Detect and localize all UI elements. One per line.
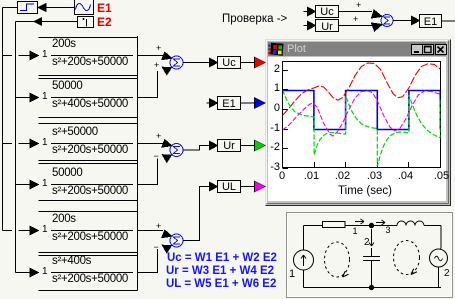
- block W6 borders: [39, 256, 138, 291]
- circuit numeral labels: [353, 226, 358, 237]
- check E1 box: [420, 15, 442, 28]
- summing junction sum1: [170, 56, 183, 69]
- plot window frame: [265, 39, 451, 206]
- arrowhead UL input: [210, 182, 218, 190]
- minimize button: [411, 44, 423, 55]
- wire UL to plot: [241, 186, 255, 188]
- arrowhead W5 input: [30, 226, 39, 234]
- circuit: source 2 circle: [430, 249, 448, 267]
- summing junction sum3: [170, 234, 183, 247]
- sine source block E1: [75, 0, 94, 15]
- check row: Uc input stub: [304, 11, 308, 13]
- circuit: right vertical wire upper: [440, 226, 442, 249]
- plot box: [283, 62, 441, 168]
- gain and fraction texts of W1..W6: [42, 50, 48, 60]
- E1 input stub: [207, 102, 211, 104]
- check Ur box: [316, 20, 339, 32]
- wire sum2 out to Ur (jog): [183, 146, 210, 151]
- branch wire to W1: [3, 55, 31, 57]
- check label: [222, 13, 287, 25]
- wire sum4 out: [393, 20, 412, 22]
- wire check E1 out to edge: [442, 20, 455, 22]
- circuit: left vertical wire: [294, 219, 448, 290]
- arrowhead Ur input: [210, 141, 218, 149]
- circuit: top wire node to coil: [374, 225, 397, 227]
- branch wire to W2: [16, 97, 31, 99]
- title text: [287, 44, 306, 55]
- plot window client area: [268, 57, 446, 201]
- wire step block to trunk A: [3, 7, 18, 9]
- circuit: top wire coil to right: [424, 225, 441, 227]
- circuit: current arrow 3: [376, 220, 385, 225]
- wire W4 out to sum2: [137, 159, 157, 185]
- block W4 borders: [39, 164, 138, 201]
- Ur variable box: [218, 140, 241, 152]
- arrowhead sum1 top input: [162, 52, 172, 59]
- arrowhead sum2 top input: [162, 140, 172, 147]
- curve E1 blue square wave: [283, 91, 441, 130]
- circuit: node dot top: [369, 223, 373, 227]
- wire W2 out to sum1: [137, 71, 157, 98]
- arrowhead E1 input: [210, 99, 218, 107]
- green plot input arrow: [255, 140, 266, 151]
- circuit: node dot bottom: [369, 285, 373, 289]
- branch wire to W4: [16, 184, 31, 186]
- red plot input arrow: [255, 57, 266, 68]
- check Uc box: [316, 6, 339, 18]
- circuit: source 1 arrow up: [301, 255, 306, 266]
- wire E1 to plot: [241, 102, 255, 104]
- wire sum1 out to Uc: [183, 62, 210, 64]
- curve Ur magenta dashed: [283, 91, 441, 136]
- arrowhead check Ur input: [308, 21, 316, 29]
- circuit: capacitor top lead: [371, 248, 373, 256]
- circuit: left mesh arrowhead: [343, 271, 349, 277]
- time axis title: [330, 186, 400, 197]
- circuit: resistor body: [323, 222, 346, 228]
- circuit: top wire resistor to node: [345, 225, 372, 227]
- E1 E2 labels: [97, 2, 112, 14]
- plot axis labels: [274, 64, 280, 75]
- magenta plot input arrow: [255, 181, 266, 192]
- check Ur input stub: [304, 25, 308, 27]
- variable box labels: [218, 57, 241, 69]
- wire trunk B vertical: [15, 22, 17, 273]
- circuit: capacitor bottom lead: [371, 261, 373, 287]
- circuit: current arrow 1: [355, 219, 364, 224]
- UL variable box: [218, 181, 241, 193]
- curve UL green dashed: [283, 90, 441, 166]
- plot curves: [283, 63, 441, 166]
- circuit: source 2 leads: [439, 248, 442, 288]
- branch wire to W6: [16, 272, 31, 274]
- wire W3 out to sum2: [137, 143, 163, 145]
- fraction bars: [51, 56, 133, 273]
- wire trunk A vertical: [2, 8, 4, 231]
- maximize button: [422, 44, 434, 55]
- equations: [167, 252, 277, 265]
- arrowhead W2 input: [30, 93, 39, 101]
- wire Ur to plot: [241, 145, 255, 147]
- arrowhead Uc input: [210, 58, 218, 66]
- arrowhead W1 input: [30, 51, 39, 59]
- circuit panel frame: [286, 212, 453, 298]
- title bar icon: [268, 43, 283, 56]
- arrowhead sum4 input 2: [372, 23, 383, 31]
- arrowhead on E2 wire pointing left: [34, 18, 42, 25]
- E1 variable box: [218, 97, 241, 110]
- circuit: current arrow 2 (down): [369, 229, 374, 246]
- arrowhead sum4 input 1: [372, 10, 383, 18]
- wire Uc to plot: [241, 62, 255, 64]
- circuit: right mesh ellipse: [394, 241, 420, 275]
- circuit: top wire left segment: [304, 225, 323, 227]
- wire sine E1 to step block: [45, 7, 74, 9]
- branch wire to W3: [3, 143, 31, 145]
- wire check Uc to sum4: [339, 11, 372, 13]
- wire check Ur to sum4: [339, 25, 372, 27]
- arrowhead W3 input: [30, 139, 39, 147]
- circuit: bottom wire: [304, 287, 442, 289]
- Uc variable box: [218, 57, 241, 69]
- arrowhead sum3 bottom input: [162, 245, 171, 253]
- circuit: inductor coil: [397, 221, 424, 226]
- wire W5 out to sum3: [137, 230, 163, 232]
- blocks shared right edge: [136, 36, 138, 291]
- wire W6 out to sum3: [137, 249, 157, 273]
- arrowhead W4 input: [30, 180, 39, 188]
- arrowhead W6 input: [30, 268, 39, 276]
- arrowhead into step block right side: [38, 4, 46, 12]
- summing junction sum2: [170, 144, 183, 157]
- plot window title bar: [268, 42, 446, 56]
- block W2 borders: [39, 79, 138, 118]
- circuit: source 1 circle: [294, 250, 314, 270]
- block W5 borders: [39, 212, 138, 253]
- blue plot input arrow: [255, 98, 266, 109]
- arrowhead check E1 input: [412, 16, 420, 24]
- step source block: [18, 2, 38, 14]
- summing junction sum4: [381, 15, 393, 27]
- circuit: capacitor plates: [363, 257, 380, 261]
- wire E2 to trunk B: [16, 21, 78, 23]
- circuit: right mesh arrowhead: [411, 269, 417, 275]
- close button: [435, 44, 447, 55]
- circuit: left mesh ellipse: [325, 242, 350, 277]
- curve Uc red: [283, 63, 441, 116]
- arrowhead check Uc input: [308, 7, 316, 15]
- arrowhead sum3 top input: [162, 230, 172, 237]
- step source block E2: [78, 17, 94, 28]
- sum signs: [156, 43, 161, 54]
- wire sum3 out to UL (up riser): [183, 187, 210, 241]
- branch wire to W5: [3, 230, 31, 232]
- arrowhead sum1 bottom input: [162, 67, 171, 75]
- block W3 borders: [39, 124, 138, 161]
- arrowhead sum2 bottom input: [162, 155, 171, 163]
- wire W1 out to sum1: [137, 55, 163, 57]
- circuit: source 1 bottom lead: [303, 270, 305, 288]
- circuit: source 2 sine: [435, 256, 443, 261]
- block W1 borders: [39, 38, 138, 76]
